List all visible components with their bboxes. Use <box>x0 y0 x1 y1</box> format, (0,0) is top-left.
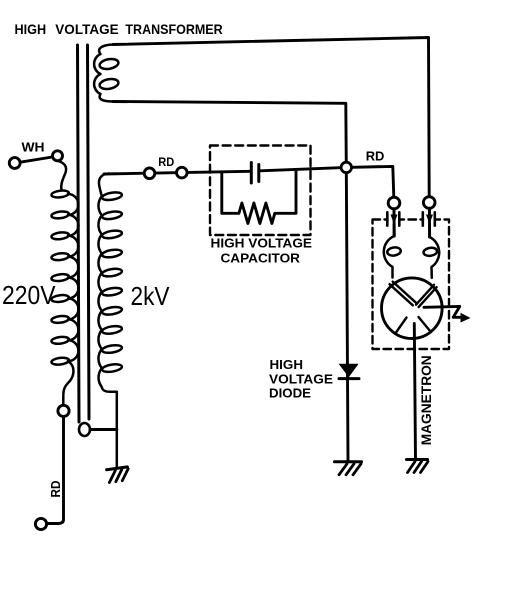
wire core-to-ground horizontal <box>90 428 117 431</box>
node junction (RD) <box>341 162 351 172</box>
wire secondary to capacitor (RD link) <box>104 171 250 174</box>
wire left terminal into box <box>393 209 396 236</box>
capacitor box (dashed) <box>210 146 311 236</box>
svg-text:220V: 220V <box>2 280 56 310</box>
svg-text:MAGNETRON: MAGNETRON <box>419 355 434 445</box>
wire right terminal into box <box>428 208 431 237</box>
magnetron filament loop right <box>423 237 439 278</box>
svg-text:VOLTAGE: VOLTAGE <box>55 21 118 37</box>
svg-text:WH: WH <box>22 141 45 155</box>
bleeder resistor R1 <box>222 170 296 224</box>
ground (magnetron) <box>407 460 429 473</box>
svg-text:DIODE: DIODE <box>269 386 311 401</box>
label: HIGH VOLTAGE TRANSFORMER title <box>15 21 223 37</box>
feedthrough capacitor left <box>387 212 399 225</box>
WH connector small circle <box>53 151 63 161</box>
filament winding (transformer tertiary) <box>94 45 119 102</box>
magnetron filament loop left <box>384 236 401 278</box>
magnetron tube circle <box>382 278 443 339</box>
feedthrough capacitor right <box>423 212 435 225</box>
WH terminal circle <box>9 158 20 169</box>
magnetron anode spokes <box>396 317 431 333</box>
RD connector circle right <box>177 167 188 178</box>
svg-text:RD: RD <box>366 149 385 164</box>
label HIGH VOLTAGE DIODE <box>269 357 333 400</box>
magnetron antenna output arrow <box>424 306 461 317</box>
wire filament top to magnetron right <box>113 38 429 197</box>
svg-text:2kV: 2kV <box>131 281 171 311</box>
magnetron box (dashed) <box>373 220 450 350</box>
wire primary bottom to RD terminal <box>47 417 64 524</box>
WH connector wire <box>20 157 52 162</box>
svg-text:HIGH: HIGH <box>15 21 47 37</box>
magnetron cathode V lines <box>390 282 437 308</box>
secondary winding 2kV <box>98 174 122 468</box>
wire junction to magnetron left terminal <box>346 166 394 197</box>
ground (secondary/core) <box>107 467 130 483</box>
wire filament bottom to junction column <box>113 102 348 462</box>
capacitor C1 plates <box>251 163 258 184</box>
magnetron terminal circle right <box>423 197 435 209</box>
terminal circle bottom left <box>35 518 46 529</box>
RD connector circle left <box>144 168 155 179</box>
svg-text:TRANSFORMER: TRANSFORMER <box>125 21 222 37</box>
svg-text:HIGH VOLTAGE: HIGH VOLTAGE <box>211 236 313 251</box>
diode D1 <box>339 364 359 377</box>
wire magnetron cathode to ground <box>414 324 415 460</box>
svg-text:RD: RD <box>49 481 63 498</box>
transformer core T1 <box>78 45 91 436</box>
ground (diode) <box>335 462 362 475</box>
primary bottom terminal circle <box>58 405 69 416</box>
feedthrough gap masks <box>389 216 399 224</box>
wire left terminal into box (redraw) <box>393 209 396 236</box>
label HIGH VOLTAGE CAPACITOR <box>211 236 313 266</box>
magnetron terminal circle left <box>388 197 400 209</box>
svg-text:RD: RD <box>158 155 174 169</box>
primary winding 220V <box>51 161 78 405</box>
svg-text:VOLTAGE: VOLTAGE <box>269 371 333 386</box>
svg-text:CAPACITOR: CAPACITOR <box>221 251 301 266</box>
wire capacitor right to junction <box>260 167 346 170</box>
svg-text:HIGH: HIGH <box>270 357 304 372</box>
